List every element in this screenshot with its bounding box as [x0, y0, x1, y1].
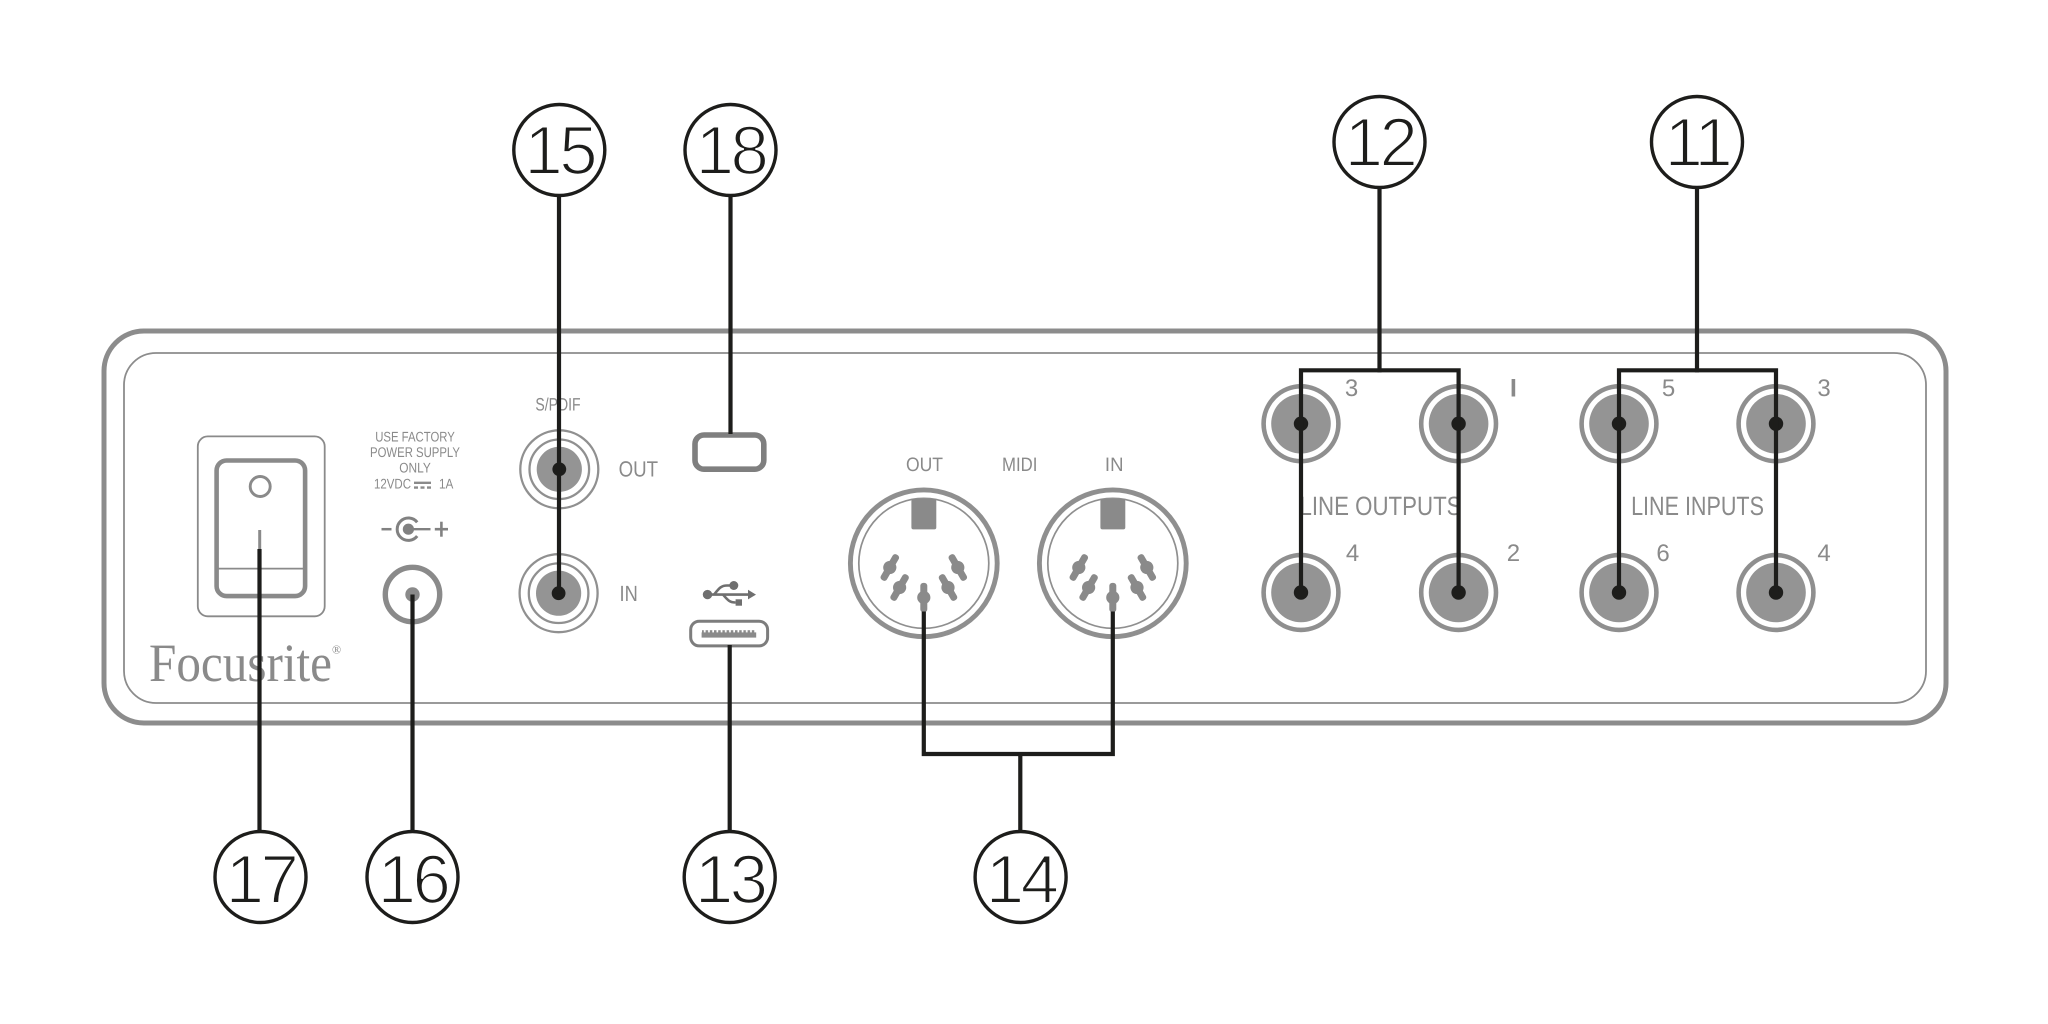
panel inner border — [124, 353, 1926, 703]
svg-text:OUT: OUT — [619, 457, 658, 482]
svg-text:14: 14 — [986, 841, 1058, 918]
power supply text — [370, 429, 460, 492]
svg-text:3: 3 — [1345, 375, 1358, 402]
svg-text:18: 18 — [696, 112, 767, 189]
wire callout 18 to security slot — [728, 196, 732, 435]
DC polarity symbol — [382, 518, 449, 540]
Focusrite logo — [149, 633, 341, 693]
wire switch to callout 17 — [257, 549, 261, 832]
svg-text:LINE OUTPUTS: LINE OUTPUTS — [1299, 491, 1461, 521]
panel outer border — [104, 331, 1946, 723]
jack number labels inputs — [1656, 375, 1830, 567]
svg-text:Focusrite: Focusrite — [149, 633, 332, 693]
svg-text:OUT: OUT — [906, 454, 943, 476]
wire DC inlet to callout 16 — [410, 595, 414, 832]
callout circle 14 — [975, 832, 1066, 923]
callout circle 17 — [215, 832, 306, 923]
svg-text:IN: IN — [1105, 454, 1124, 476]
callout circle 18 — [685, 105, 776, 196]
callout circle 12 — [1334, 97, 1425, 188]
svg-text:3: 3 — [1817, 375, 1830, 402]
svg-text:MIDI: MIDI — [1002, 454, 1037, 476]
bracket line inputs — [1619, 370, 1776, 592]
wire MIDI bracket to callout 14 — [1018, 754, 1022, 832]
svg-text:12: 12 — [1345, 104, 1415, 181]
callout circle 11 — [1652, 97, 1743, 188]
wire callout 15 to S/PDIF — [557, 196, 561, 594]
callout circle 15 — [514, 105, 605, 196]
Kensington security slot (item 18) — [695, 435, 764, 469]
wire callout 11 stem — [1695, 188, 1699, 373]
svg-text:17: 17 — [226, 841, 296, 918]
svg-text:16: 16 — [378, 841, 449, 918]
DC power inlet (item 16) — [385, 567, 439, 621]
svg-text:4: 4 — [1817, 540, 1830, 567]
svg-text:USE FACTORY: USE FACTORY — [375, 429, 455, 445]
svg-text:LINE INPUTS: LINE INPUTS — [1631, 491, 1764, 521]
power switch (item 17) — [198, 436, 325, 616]
svg-text:6: 6 — [1656, 540, 1669, 567]
svg-text:5: 5 — [1662, 375, 1675, 402]
LINE INPUTS jacks (item 11) — [1582, 386, 1657, 461]
bracket line outputs — [1301, 370, 1459, 592]
svg-text:1A: 1A — [439, 476, 454, 492]
svg-text:2: 2 — [1507, 540, 1520, 567]
MIDI OUT DIN socket (item 14) — [850, 490, 997, 637]
USB port (item 13) — [691, 621, 768, 646]
svg-text:IN: IN — [620, 581, 638, 606]
wire callout 12 stem — [1377, 188, 1381, 373]
svg-text:®: ® — [332, 643, 341, 657]
LINE OUTPUTS jacks (item 12) — [1264, 386, 1339, 461]
svg-text:13: 13 — [695, 841, 766, 918]
svg-text:ONLY: ONLY — [399, 460, 431, 476]
DC symbol solid/dash — [414, 483, 431, 488]
bracket MIDI — [924, 612, 1113, 755]
svg-text:15: 15 — [524, 112, 595, 189]
MIDI IN DIN socket — [1039, 490, 1186, 637]
jack number labels outputs — [1345, 375, 1520, 567]
svg-text:12VDC: 12VDC — [374, 476, 411, 492]
S/PDIF OUT RCA (item 15) — [520, 430, 598, 508]
svg-text:4: 4 — [1346, 540, 1359, 567]
callout lines — [260, 188, 1777, 832]
S/PDIF IN RCA — [520, 554, 598, 632]
callout circle 16 — [367, 832, 458, 923]
svg-text:11: 11 — [1665, 104, 1730, 181]
svg-text:POWER SUPPLY: POWER SUPPLY — [370, 444, 460, 460]
USB icon — [708, 586, 751, 603]
callout circle 13 — [684, 832, 775, 923]
wire USB to callout 13 — [728, 645, 732, 832]
